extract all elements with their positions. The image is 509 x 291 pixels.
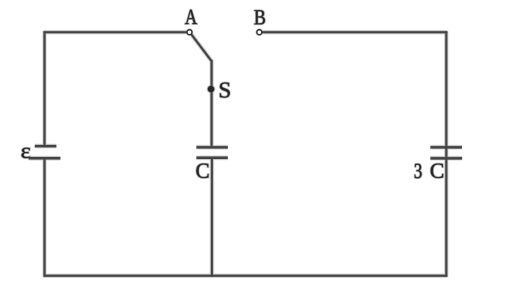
label S: [220, 83, 230, 98]
label C (middle capacitor value): [196, 164, 208, 178]
soft halo underlay for switch pivot dot S: [207, 85, 216, 94]
label B: [254, 10, 265, 24]
capacitor 3C top plate: [430, 146, 462, 148]
soft halo underlay for all wires (inner): [29, 31, 463, 277]
wire switch pivot down to capacitor C top plate: [211, 60, 213, 146]
wire capacitor C bottom plate down to bottom rail: [211, 158, 213, 277]
switch contact B (open circle terminal): [257, 30, 262, 35]
wire left side upper: top-left corner down to battery top plate: [44, 31, 46, 146]
wire left side lower: battery bottom plate down to bottom-left corner: [44, 158, 46, 277]
soft halo underlay for all wires (outer): [29, 31, 463, 277]
label epsilon (battery emf): [22, 148, 30, 158]
wire bottom rail: [44, 275, 448, 277]
capacitor 3C bottom plate: [430, 157, 462, 159]
switch S blade: diagonal from contact A toward pivot: [191, 34, 211, 61]
battery cell: long bottom plate: [29, 157, 61, 159]
wire right side: top-right corner down through capacitor 3C to bottom-right corner: [445, 31, 447, 277]
wire top-left: battery branch to switch contact A: [44, 31, 187, 33]
capacitor C bottom plate: [196, 157, 227, 159]
label C (right capacitor letter): [431, 164, 443, 178]
switch pivot node S (solid dot): [208, 86, 215, 93]
wire top-right: switch contact B to top-right corner: [262, 31, 448, 33]
label 3 (right capacitor digit): [415, 164, 422, 178]
soft halo underlay for labels: [22, 10, 444, 178]
capacitor C top plate: [196, 146, 227, 148]
battery cell: short top plate: [35, 145, 57, 147]
soft halo underlay for contact circles A and B: [187, 30, 192, 35]
label A: [185, 10, 197, 24]
switch contact A (open circle terminal): [187, 30, 192, 35]
